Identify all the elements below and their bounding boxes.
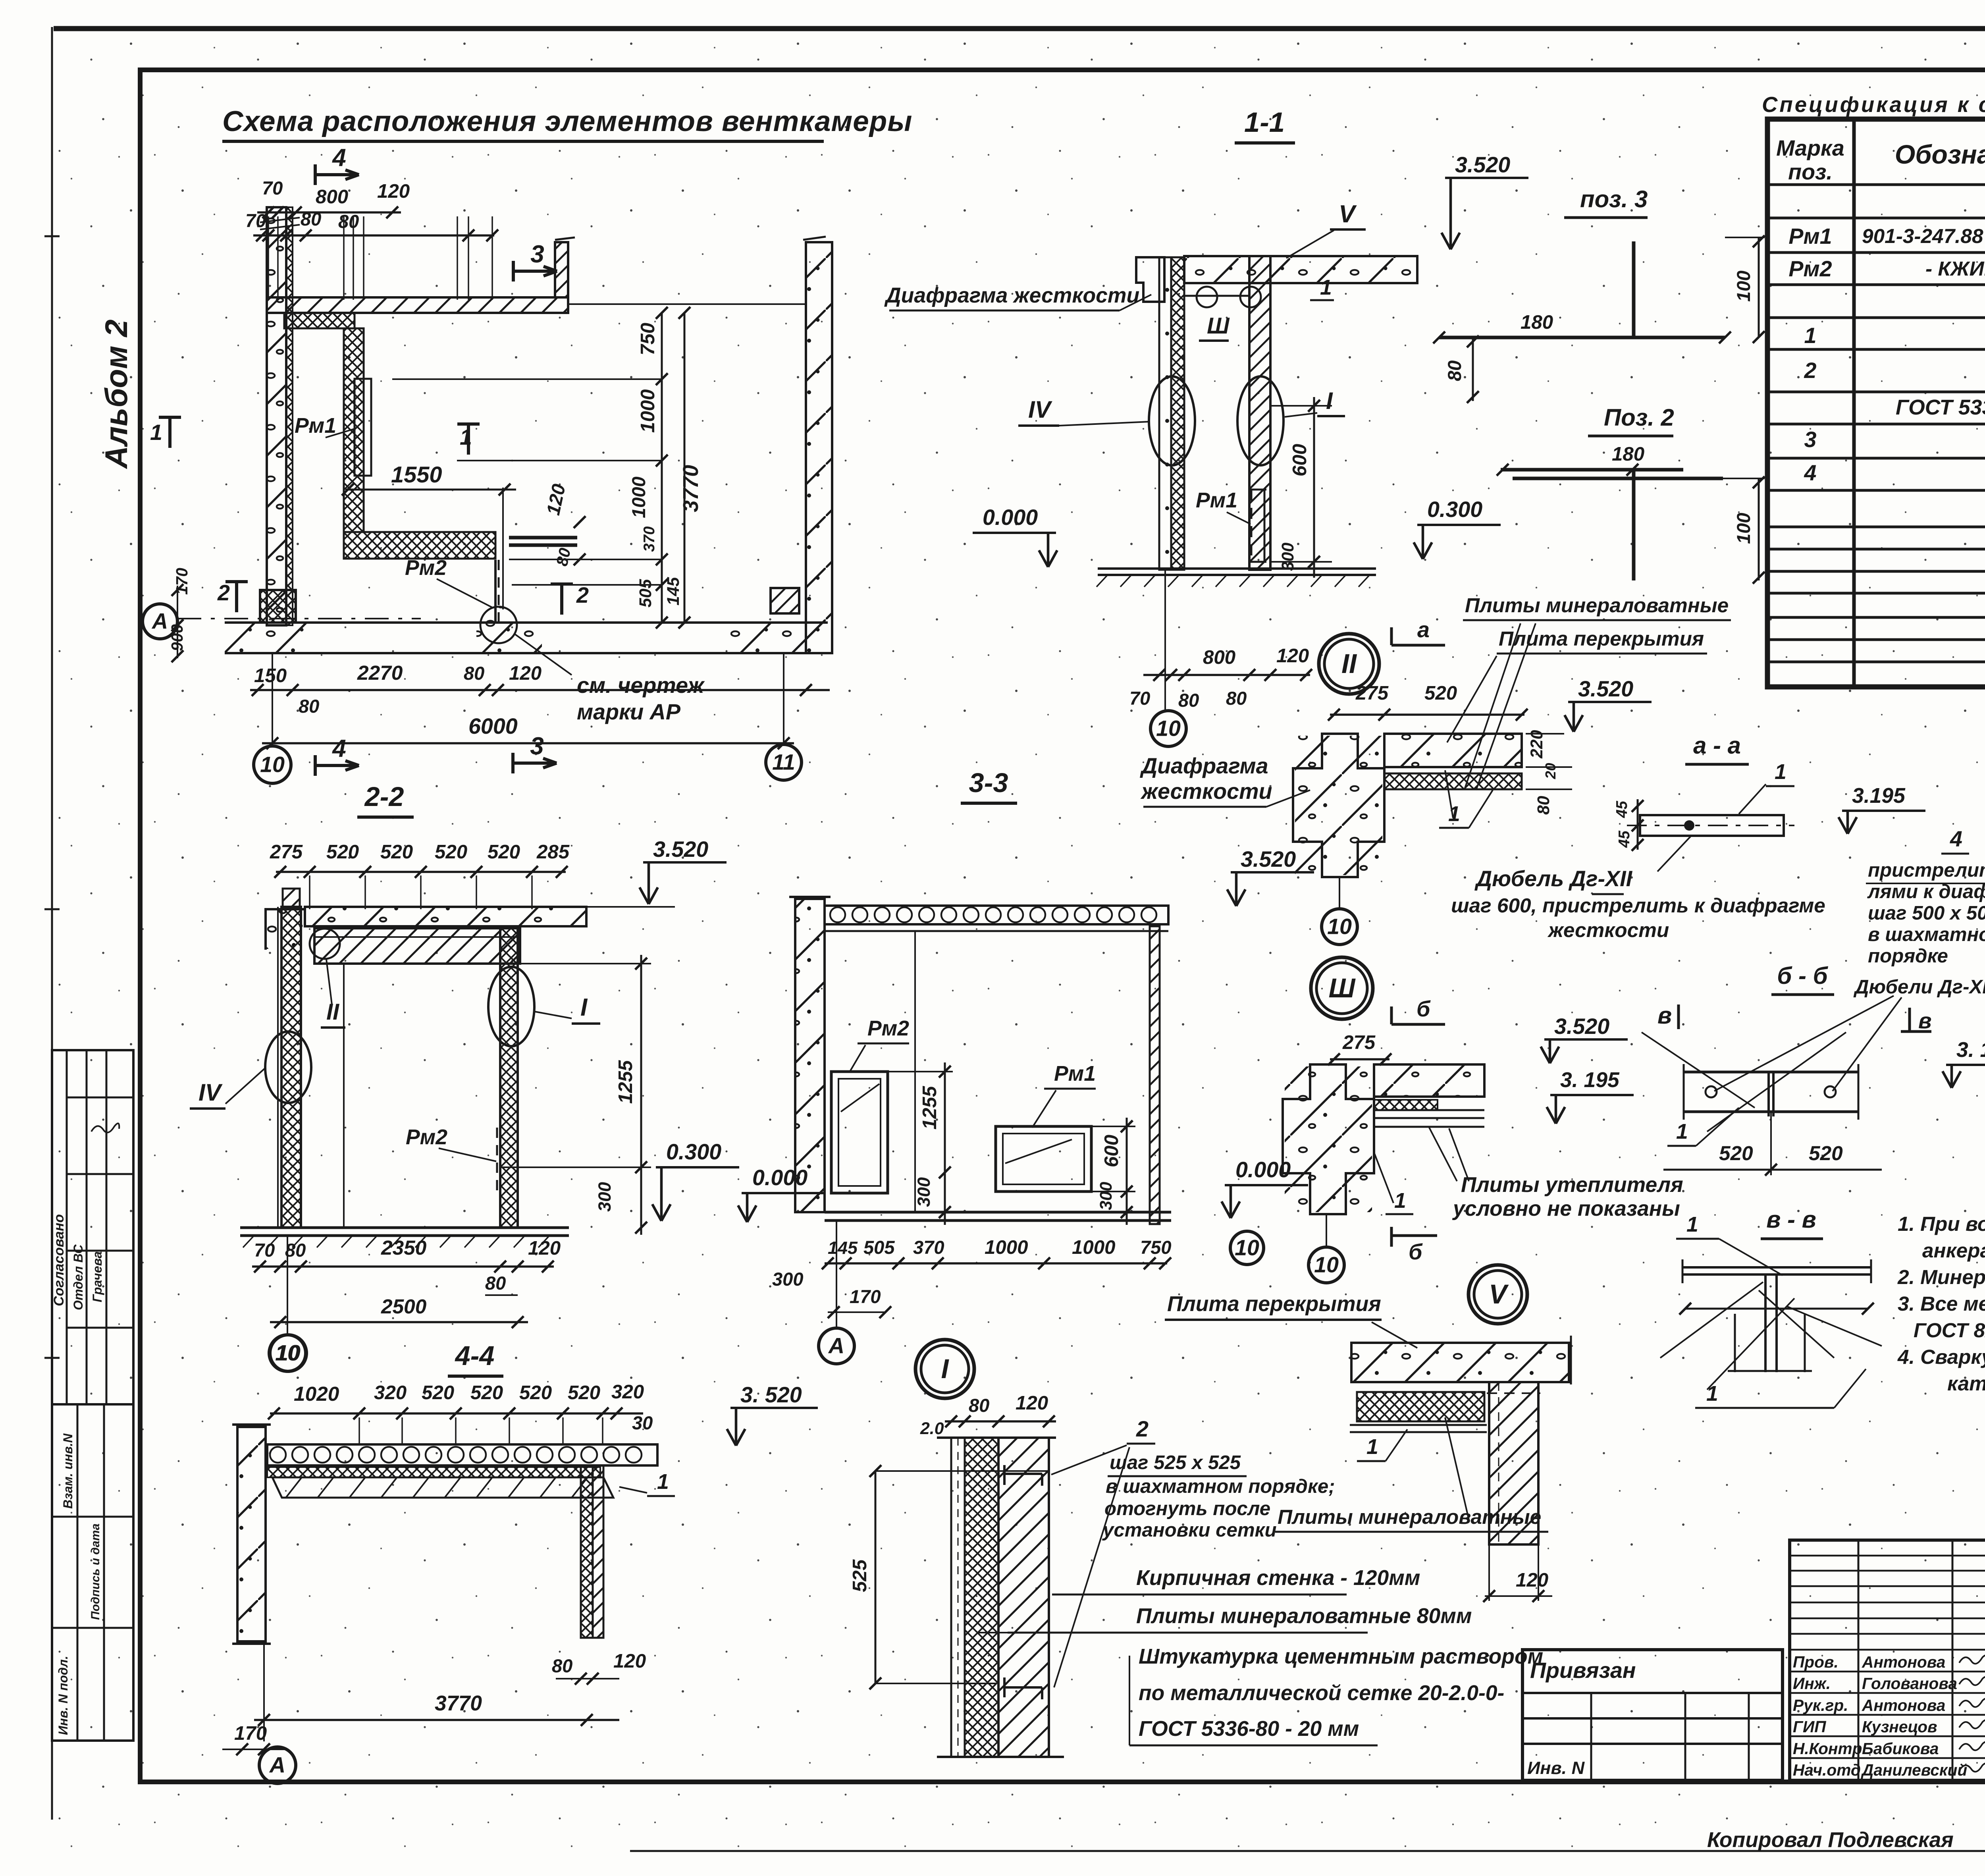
- svg-text:750: 750: [1140, 1237, 1172, 1258]
- svg-text:2500: 2500: [381, 1295, 427, 1318]
- svg-text:120: 120: [1276, 645, 1309, 667]
- svg-text:2.0: 2.0: [920, 1419, 944, 1438]
- svg-text:1000: 1000: [628, 476, 649, 518]
- section 4-4 grid circle 10 top: [270, 1335, 306, 1371]
- svg-text:10: 10: [276, 1341, 301, 1365]
- title block small table privyazan: [1522, 1650, 1783, 1780]
- node V slab: [1351, 1343, 1569, 1382]
- svg-text:80: 80: [1444, 361, 1465, 381]
- svg-text:марки АР: марки АР: [577, 700, 681, 724]
- svg-text:1: 1: [150, 420, 162, 445]
- svg-text:Марка: Марка: [1776, 136, 1844, 160]
- svg-text:I: I: [580, 994, 588, 1021]
- svg-text:Привязан: Привязан: [1530, 1658, 1636, 1683]
- section 3-3 dim 1255 300 left chain: [888, 1071, 953, 1072]
- left margin stamp table lower: [52, 1404, 133, 1741]
- svg-text:установки сетки: установки сетки: [1102, 1519, 1277, 1541]
- svg-text:285: 285: [536, 841, 570, 863]
- node II right dims 220 20 80: [1526, 733, 1564, 735]
- svg-text:шаг 525 х 525: шаг 525 х 525: [1110, 1452, 1241, 1473]
- svg-text:10: 10: [1156, 716, 1181, 741]
- svg-text:70: 70: [245, 210, 266, 231]
- svg-text:520: 520: [1719, 1142, 1753, 1165]
- svg-text:220: 220: [1527, 730, 1546, 759]
- section 2-2 top slab: [305, 907, 586, 926]
- svg-text:1: 1: [1775, 760, 1786, 784]
- svg-text:0.300: 0.300: [666, 1139, 721, 1164]
- section 2-2 right wall: [500, 926, 518, 1228]
- svg-text:505: 505: [636, 578, 655, 607]
- svg-text:320: 320: [611, 1381, 644, 1403]
- svg-text:120: 120: [377, 180, 410, 202]
- svg-text:145: 145: [828, 1238, 858, 1258]
- svg-text:жесткости: жесткости: [1547, 919, 1669, 941]
- svg-text:V: V: [1339, 201, 1357, 228]
- svg-text:2350: 2350: [381, 1236, 427, 1259]
- svg-text:80: 80: [552, 1655, 572, 1676]
- embedded plate Pm2 in plan: [494, 560, 497, 622]
- section 4-4 right wall: [581, 1465, 593, 1638]
- svg-text:600: 600: [1289, 444, 1310, 476]
- svg-text:80: 80: [338, 211, 359, 232]
- svg-text:1: 1: [1320, 276, 1332, 299]
- svg-text:300: 300: [1278, 542, 1297, 571]
- svg-text:80: 80: [485, 1273, 506, 1294]
- svg-text:Ш: Ш: [1328, 973, 1356, 1003]
- node I dim 525: [875, 1471, 877, 1683]
- sheet outer edge left: [51, 27, 53, 1820]
- svg-text:Штукатурка цементным раствором: Штукатурка цементным раствором: [1139, 1645, 1543, 1668]
- svg-text:3. 520: 3. 520: [740, 1382, 802, 1407]
- plan axis line A: [177, 618, 421, 619]
- specification table grid: [1767, 119, 1985, 687]
- svg-text:120: 120: [613, 1650, 646, 1672]
- svg-text:2. Минераловатные плиты принят: 2. Минераловатные плиты приняты по ГОСТ …: [1897, 1266, 1985, 1288]
- node V marker circle: [1469, 1265, 1527, 1324]
- svg-text:Спецификация к схеме распол: Спецификация к схеме расположения элемен…: [1762, 93, 1985, 117]
- svg-text:Пров.: Пров.: [1793, 1653, 1839, 1671]
- plan overall vertical dim 3770: [684, 313, 686, 623]
- svg-text:520: 520: [1809, 1142, 1843, 1165]
- section 1-1 floor: [1098, 567, 1376, 570]
- section 1-1 angle detail under slab: [1184, 295, 1249, 297]
- svg-text:45: 45: [1613, 801, 1630, 818]
- plan inner partition lower band: [344, 532, 495, 559]
- title block signature table: [1790, 1540, 1985, 1780]
- svg-text:300: 300: [594, 1182, 615, 1212]
- svg-text:4: 4: [1804, 461, 1817, 485]
- svg-text:а - а: а - а: [1693, 732, 1741, 759]
- svg-text:Плита перекрытия: Плита перекрытия: [1167, 1292, 1381, 1316]
- svg-text:IV: IV: [198, 1079, 223, 1106]
- section 2-2 dim 1255 300: [520, 963, 651, 964]
- svg-text:1000: 1000: [985, 1236, 1028, 1258]
- svg-text:120: 120: [1016, 1392, 1048, 1414]
- svg-text:Рук.гр.: Рук.гр.: [1793, 1696, 1848, 1714]
- section 3-3 floor: [825, 1211, 1171, 1214]
- plan grid circle A: [143, 604, 177, 639]
- node I wall brick layer: [998, 1438, 1049, 1757]
- svg-text:100: 100: [1733, 270, 1754, 302]
- svg-text:Диафрагма: Диафрагма: [1140, 754, 1268, 778]
- svg-text:А: А: [269, 1753, 285, 1778]
- svg-text:170: 170: [850, 1286, 881, 1307]
- svg-text:ГОСТ 5336-80: ГОСТ 5336-80: [1896, 396, 1985, 419]
- svg-text:320: 320: [374, 1382, 407, 1404]
- svg-text:180: 180: [1521, 311, 1553, 333]
- svg-text:I: I: [941, 1353, 949, 1384]
- svg-text:3.520: 3.520: [1554, 1014, 1609, 1039]
- svg-text:Антонова: Антонова: [1862, 1653, 1945, 1671]
- svg-text:145: 145: [664, 576, 683, 605]
- section 3-3 plate Pm1: [996, 1126, 1091, 1192]
- svg-text:520: 520: [470, 1382, 503, 1404]
- svg-text:Ш: Ш: [1207, 313, 1230, 339]
- svg-text:80: 80: [464, 663, 484, 684]
- svg-text:80: 80: [969, 1395, 989, 1416]
- svg-text:520: 520: [1424, 682, 1457, 704]
- svg-text:по металлической сетке 20-2.: по металлической сетке 20-2.0-0-: [1139, 1681, 1504, 1705]
- section 2-2 corner block: [266, 909, 305, 950]
- svg-text:600: 600: [1100, 1135, 1122, 1167]
- svg-text:в шахматном порядке;: в шахматном порядке;: [1106, 1475, 1335, 1497]
- svg-text:в: в: [1918, 1008, 1932, 1033]
- section 4-4 grid circle A: [263, 1644, 265, 1741]
- node I wall edges: [937, 1436, 1056, 1439]
- svg-text:поз. 3: поз. 3: [1580, 186, 1648, 212]
- svg-text:10: 10: [260, 752, 285, 777]
- section 3-3 left wall: [795, 899, 825, 1212]
- plan section flag 4 top: [314, 164, 317, 185]
- svg-text:Грачева: Грачева: [90, 1251, 104, 1302]
- svg-text:см. чертеж: см. чертеж: [577, 673, 705, 698]
- svg-text:пристрелить дюбе-: пристрелить дюбе-: [1868, 859, 1985, 881]
- section 2-2 oval I: [488, 967, 534, 1046]
- node I marker circle: [915, 1340, 974, 1398]
- svg-text:Рм2: Рм2: [406, 1126, 447, 1149]
- svg-text:1. При возведении кирпичных с: 1. При возведении кирпичных стен венткам…: [1898, 1213, 1985, 1235]
- svg-text:4-4: 4-4: [455, 1340, 495, 1371]
- svg-text:520: 520: [488, 841, 520, 863]
- node III grid circle 10: [1326, 1214, 1327, 1247]
- svg-text:275: 275: [270, 841, 303, 863]
- svg-text:3-3: 3-3: [969, 767, 1008, 798]
- svg-text:Нач.отд: Нач.отд: [1793, 1761, 1861, 1779]
- svg-text:Рм1: Рм1: [1196, 489, 1237, 512]
- svg-text:Альбом 2: Альбом 2: [98, 320, 134, 469]
- node V lower thin band: [1350, 1424, 1487, 1426]
- svg-text:1020: 1020: [294, 1382, 339, 1405]
- svg-text:3.520: 3.520: [1241, 847, 1296, 871]
- plan detail circle see drawing AR: [480, 607, 517, 643]
- svg-text:Плиты минераловатные 80мм: Плиты минераловатные 80мм: [1136, 1604, 1472, 1628]
- svg-text:Поз. 2: Поз. 2: [1604, 404, 1674, 431]
- svg-text:1: 1: [1804, 323, 1817, 348]
- svg-text:1-1: 1-1: [1244, 106, 1285, 138]
- svg-text:ГОСТ 5336-80 - 20 мм: ГОСТ 5336-80 - 20 мм: [1139, 1717, 1359, 1741]
- section 2-2 parapet stub: [283, 889, 300, 907]
- section 3-3 dim 600 300 right chain: [1091, 1126, 1135, 1127]
- svg-text:10: 10: [1235, 1236, 1259, 1260]
- plan floor band with foundation patches: [225, 621, 828, 624]
- svg-text:1: 1: [460, 425, 472, 449]
- svg-text:0.300: 0.300: [1427, 497, 1482, 522]
- svg-text:800: 800: [1203, 646, 1235, 668]
- svg-text:3770: 3770: [679, 465, 703, 512]
- svg-text:Рм1: Рм1: [1054, 1062, 1096, 1085]
- node II grid circle 10: [1339, 877, 1340, 908]
- detail b-b crossing leaders: [1714, 996, 1894, 1091]
- svg-text:70: 70: [1129, 688, 1150, 709]
- section 3-3 grid circle 10: [1230, 1231, 1264, 1265]
- svg-text:в: в: [1657, 1002, 1672, 1029]
- svg-text:Согласовано: Согласовано: [51, 1214, 67, 1306]
- svg-text:1: 1: [1366, 1435, 1378, 1459]
- svg-text:80: 80: [1178, 690, 1199, 711]
- plan top slab: [267, 297, 568, 313]
- pos.3 angle drawing: [1439, 336, 1725, 339]
- sheet top border: [54, 26, 1985, 31]
- section 4-4 plaster mesh band: [272, 1477, 613, 1498]
- section 3-3 interior wall edge line: [914, 931, 916, 1212]
- svg-text:20: 20: [1542, 763, 1559, 779]
- svg-text:120: 120: [528, 1237, 561, 1259]
- section 1-1 oval detail IV: [1149, 376, 1195, 465]
- svg-text:Рм1: Рм1: [1788, 224, 1832, 249]
- svg-text:ГОСТ 8292-85 за 2 раза по гр: ГОСТ 8292-85 за 2 раза по грунтовке ГФ-0…: [1914, 1319, 1985, 1342]
- svg-text:Рм1: Рм1: [295, 414, 336, 438]
- plan inner partition horizontal band: [284, 313, 355, 328]
- plan right pilaster block: [771, 588, 799, 613]
- node I wall insulation layer: [965, 1438, 998, 1757]
- node II insulation under slab: [1384, 773, 1522, 789]
- node III marker circle: [1311, 957, 1373, 1019]
- node V insulation band: [1357, 1392, 1484, 1421]
- svg-text:3. 195: 3. 195: [1956, 1038, 1985, 1062]
- section 1-1 right wall: [1249, 256, 1270, 570]
- svg-text:Кирпичная стенка - 120мм: Кирпичная стенка - 120мм: [1136, 1566, 1420, 1590]
- detail v-v plate top: [1682, 1266, 1871, 1269]
- svg-text:Инж.: Инж.: [1793, 1674, 1831, 1693]
- svg-text:180: 180: [1612, 443, 1644, 465]
- leader and text see drawing marki AR: [515, 634, 572, 675]
- plan grid circle 11: [783, 653, 784, 743]
- svg-text:Рм2: Рм2: [867, 1017, 909, 1040]
- svg-text:520: 520: [568, 1382, 600, 1404]
- svg-text:120: 120: [1516, 1569, 1548, 1591]
- leader lines from labels to node II: [1465, 623, 1521, 788]
- fold tick marks on left edge: [44, 235, 60, 237]
- svg-text:4: 4: [1950, 827, 1962, 851]
- svg-text:3. Все металлоконструкции окр: 3. Все металлоконструкции окрасить масля…: [1898, 1292, 1985, 1315]
- detail b-b plates: [1684, 1071, 1858, 1074]
- svg-text:Отдел ВС: Отдел ВС: [71, 1244, 85, 1310]
- node II section flag a upper: [1390, 627, 1393, 645]
- svg-text:2-2: 2-2: [364, 781, 404, 812]
- section 2-2 floor hatching: [243, 1236, 254, 1247]
- section 1-1 grid circle 10: [1151, 711, 1186, 746]
- svg-text:1: 1: [1448, 802, 1460, 826]
- plan section flag 3 stub wall: [555, 242, 568, 297]
- svg-text:Инв. N подл.: Инв. N подл.: [56, 1656, 70, 1735]
- section 2-2 left wall: [281, 907, 301, 1228]
- node II cross column: [1293, 734, 1384, 877]
- svg-text:шаг 600, пристрелить к диафраг: шаг 600, пристрелить к диафрагме: [1451, 894, 1825, 917]
- node I leader from text to wall: [977, 1632, 1008, 1633]
- section 2-2 plate Pm2 dashed: [496, 1128, 498, 1195]
- svg-text:в шахматном: в шахматном: [1868, 924, 1985, 945]
- svg-text:80: 80: [299, 696, 319, 717]
- plan right concrete wall: [806, 242, 832, 653]
- svg-text:80: 80: [1534, 796, 1553, 815]
- svg-text:3.195: 3.195: [1852, 784, 1906, 808]
- svg-text:Антонова: Антонова: [1862, 1696, 1945, 1714]
- svg-text:б: б: [1416, 997, 1431, 1021]
- svg-text:жесткости: жесткости: [1140, 779, 1272, 804]
- svg-text:1: 1: [1394, 1189, 1406, 1213]
- svg-text:Взам. инв.N: Взам. инв.N: [61, 1433, 75, 1509]
- svg-text:б - б: б - б: [1777, 962, 1828, 989]
- svg-text:анкера в шахматном порядке для: анкера в шахматном порядке для крепления…: [1922, 1239, 1985, 1262]
- svg-text:520: 520: [519, 1382, 552, 1404]
- svg-text:505: 505: [863, 1237, 895, 1258]
- section 4-4 hollow core slab: [267, 1444, 657, 1465]
- svg-text:1255: 1255: [615, 1060, 636, 1104]
- svg-text:А: А: [828, 1334, 844, 1358]
- section 1-1 top slab: [1184, 256, 1417, 283]
- section 2-2 oval IV: [265, 1032, 311, 1103]
- section 1-1 embedded plate Pm1: [1251, 490, 1253, 562]
- svg-text:2: 2: [1136, 1417, 1149, 1441]
- svg-text:Рм2: Рм2: [1788, 256, 1832, 281]
- svg-text:0.000: 0.000: [983, 505, 1038, 530]
- svg-text:1000: 1000: [637, 389, 659, 433]
- svg-text:800: 800: [316, 186, 348, 208]
- left margin stamp table upper: [52, 1050, 133, 1404]
- svg-text:2: 2: [1804, 358, 1817, 383]
- svg-text:150: 150: [254, 665, 287, 686]
- svg-text:Голованова: Голованова: [1862, 1674, 1957, 1693]
- svg-text:V: V: [1489, 1279, 1509, 1309]
- svg-text:1255: 1255: [919, 1086, 940, 1130]
- svg-text:520: 520: [380, 841, 413, 863]
- svg-text:в - в: в - в: [1766, 1206, 1816, 1233]
- svg-text:шаг 500 х 500: шаг 500 х 500: [1868, 902, 1985, 924]
- svg-text:3770: 3770: [435, 1692, 482, 1715]
- svg-text:Дюбель Дг-ХII: Дюбель Дг-ХII: [1474, 866, 1633, 891]
- svg-text:1: 1: [1686, 1213, 1698, 1236]
- svg-text:3: 3: [530, 241, 544, 268]
- svg-text:II: II: [326, 999, 340, 1025]
- svg-text:120: 120: [509, 662, 542, 684]
- svg-text:Плиты утеплителя: Плиты утеплителя: [1461, 1173, 1683, 1197]
- node III slab: [1374, 1064, 1484, 1097]
- svg-text:3. 195: 3. 195: [1560, 1068, 1620, 1092]
- plan interior horizontal lines to dim chain: [392, 378, 662, 380]
- section 2-2 floor: [240, 1226, 569, 1229]
- node V leader to plity text: [1445, 1417, 1469, 1520]
- section 1-1 oval detail I: [1237, 376, 1284, 465]
- svg-text:520: 520: [435, 841, 467, 863]
- svg-text:170: 170: [234, 1722, 267, 1744]
- svg-text:Диафрагма жесткости: Диафрагма жесткости: [884, 284, 1139, 307]
- svg-text:б: б: [1409, 1240, 1423, 1264]
- plan inner partition vertical wall: [344, 328, 364, 532]
- svg-text:А: А: [151, 609, 168, 634]
- section 4-4 insulation band: [267, 1467, 600, 1477]
- detail a-a dims 45 45: [1637, 799, 1639, 850]
- section 2-2 detail circle II junction: [310, 929, 340, 959]
- node II marker circle: [1319, 634, 1379, 694]
- svg-text:Подпись и дата: Подпись и дата: [89, 1523, 102, 1620]
- node V right wall: [1489, 1382, 1538, 1544]
- svg-text:- КЖИ.70.070: - КЖИ.70.070: [1925, 257, 1985, 280]
- detail v-v diagonal leaders: [1660, 1282, 1763, 1358]
- svg-text:условно не показаны: условно не показаны: [1452, 1197, 1680, 1220]
- svg-text:370: 370: [913, 1237, 944, 1258]
- svg-text:520: 520: [422, 1382, 454, 1404]
- svg-text:Копировал Подлевская: Копировал Подлевская: [1707, 1828, 1954, 1852]
- svg-text:4: 4: [331, 144, 346, 172]
- svg-text:3.520: 3.520: [1578, 677, 1633, 701]
- node III section flag b upper: [1390, 1006, 1393, 1024]
- node I anchor hooks: [1003, 1465, 1006, 1485]
- svg-text:Инв. N: Инв. N: [1527, 1758, 1585, 1778]
- svg-text:520: 520: [326, 841, 359, 863]
- svg-text:300: 300: [913, 1177, 934, 1207]
- svg-text:901-3-247.88 - КЖИ.70.060: 901-3-247.88 - КЖИ.70.060: [1862, 225, 1985, 247]
- svg-text:ГИП: ГИП: [1793, 1718, 1826, 1736]
- svg-text:275: 275: [1355, 682, 1389, 704]
- section 1-1 dim 600 300: [1270, 405, 1332, 407]
- node II slab: [1384, 734, 1522, 767]
- svg-text:1: 1: [1676, 1120, 1688, 1143]
- detail a-a leader to dyubel text: [1657, 836, 1691, 871]
- svg-text:Дюбели Дг-ХII: Дюбели Дг-ХII: [1853, 976, 1985, 998]
- node V section flag b lower left: [1390, 1227, 1393, 1247]
- svg-text:I: I: [1326, 388, 1333, 414]
- svg-text:3: 3: [1804, 427, 1817, 452]
- svg-text:отогнуть после: отогнуть после: [1104, 1498, 1270, 1519]
- node I wall plaster layer: [951, 1438, 965, 1757]
- section 4-4 left brick wall: [237, 1427, 266, 1641]
- svg-text:а: а: [1417, 617, 1430, 642]
- svg-text:6000: 6000: [468, 714, 518, 738]
- svg-text:поз.: поз.: [1788, 160, 1833, 184]
- svg-text:Данилевский: Данилевский: [1861, 1761, 1967, 1779]
- svg-text:80: 80: [1226, 688, 1247, 709]
- section 1-1 diaphragm block top left: [1136, 257, 1164, 302]
- svg-text:II: II: [1341, 648, 1357, 679]
- section 1-1 wall axis lines down: [1164, 570, 1166, 711]
- svg-text:525: 525: [849, 1559, 871, 1592]
- svg-text:2: 2: [217, 580, 230, 605]
- plan left pilaster block: [260, 590, 296, 623]
- svg-text:45: 45: [1616, 831, 1633, 848]
- svg-text:порядке: порядке: [1868, 945, 1948, 967]
- svg-text:Обозначение: Обозначение: [1895, 140, 1985, 170]
- svg-text:4. Сварку производить электр: 4. Сварку производить электродами Э42 ГО…: [1897, 1346, 1985, 1368]
- svg-text:3: 3: [530, 733, 544, 760]
- section 2-2 ceiling panel: [314, 928, 520, 964]
- section 1-1 left wall: [1159, 257, 1171, 570]
- section 3-3 hollow core slab: [825, 906, 1168, 924]
- node III layer lines below slab: [1374, 1109, 1484, 1111]
- section 2-2 interior partition edge line: [343, 964, 345, 1228]
- svg-text:750: 750: [637, 323, 659, 355]
- svg-text:Н.Контр: Н.Контр: [1793, 1739, 1862, 1758]
- svg-text:70: 70: [254, 1240, 275, 1261]
